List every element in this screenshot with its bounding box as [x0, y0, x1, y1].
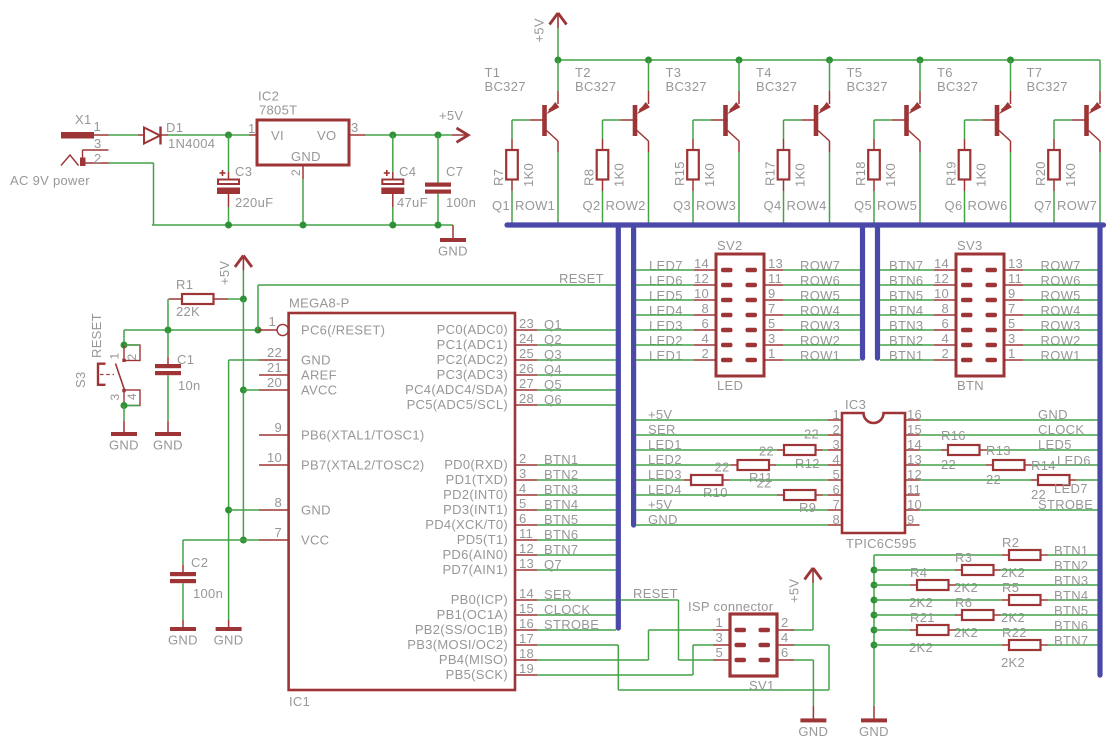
svg-text:7: 7: [274, 525, 282, 540]
wire X1 pin1 to D1: [109, 134, 139, 136]
wire BTN5 to bus: [537, 524, 616, 526]
IC1 pin 8 GND: [259, 509, 289, 511]
wire BTN3 to bus: [537, 494, 616, 496]
svg-text:9: 9: [274, 420, 282, 435]
svg-text:BTN3: BTN3: [544, 482, 578, 497]
IC3 pin 14 stub: [905, 449, 920, 451]
svg-text:23: 23: [519, 316, 534, 331]
IC1 pin 1 /RESET with bubble: [258, 329, 277, 331]
wire Q7 to bus: [1053, 191, 1055, 223]
svg-text:VI: VI: [271, 128, 284, 143]
IC3 pin 7 stub: [828, 509, 842, 511]
svg-text:10: 10: [694, 286, 709, 301]
svg-text:1: 1: [715, 615, 723, 630]
resistor R16 22 (LED5): [920, 449, 942, 451]
supply +5V flag (right arrow): [452, 134, 468, 136]
node rail junction T3: [736, 57, 743, 64]
svg-text:13: 13: [768, 256, 783, 271]
svg-text:Q5: Q5: [544, 377, 562, 392]
svg-text:R21: R21: [910, 610, 935, 625]
svg-text:GND: GND: [798, 724, 828, 739]
svg-text:PB5(SCK): PB5(SCK): [446, 667, 508, 682]
capacitor C1 10n: [167, 330, 169, 357]
svg-text:100n: 100n: [446, 195, 476, 210]
SV3 pin 14 net BTN7: [934, 269, 956, 271]
svg-text:22: 22: [267, 345, 282, 360]
svg-text:STROBE: STROBE: [544, 617, 599, 632]
svg-text:1K0: 1K0: [883, 163, 898, 187]
wire CLOCK to bus: [537, 614, 616, 616]
ground GND (IC1): [216, 627, 242, 631]
svg-text:C3: C3: [235, 164, 252, 179]
svg-text:STROBE: STROBE: [1038, 497, 1093, 512]
svg-text:2: 2: [701, 346, 709, 361]
svg-text:1: 1: [248, 121, 256, 136]
SV3 pin 5 net ROW3: [1004, 329, 1023, 331]
IC1 pin 7 VCC: [259, 539, 289, 541]
ground GND (C2): [170, 627, 196, 631]
svg-text:Q4: Q4: [544, 362, 562, 377]
transistor T4 BC327: [829, 60, 831, 91]
wire AVCC: [243, 389, 259, 391]
svg-text:SER: SER: [544, 587, 572, 602]
svg-text:R2: R2: [1002, 535, 1019, 550]
svg-text:2: 2: [94, 151, 102, 166]
wire T3 base: [693, 119, 711, 121]
resistor R13 22 (LED6): [920, 464, 987, 466]
IC1 pin 4 net BTN3: [515, 494, 537, 496]
SV2 pin 5 net ROW3: [764, 329, 783, 331]
node rail junctions: [225, 222, 232, 229]
connector SV2 box: [716, 254, 764, 376]
SV3 pin 3 net ROW2: [1004, 344, 1023, 346]
svg-text:21: 21: [267, 360, 282, 375]
svg-text:PB4(MISO): PB4(MISO): [439, 652, 508, 667]
resistor R21 2K2 (BTN6): [874, 629, 910, 631]
svg-text:LED6: LED6: [1057, 453, 1091, 468]
svg-text:3: 3: [832, 437, 840, 452]
svg-text:CLOCK: CLOCK: [1038, 422, 1084, 437]
IC3 pin 4 stub: [828, 464, 842, 466]
resistor R7 1K0: [511, 139, 513, 150]
IC1 pin 25 net Q3: [515, 359, 537, 361]
IC1 pin 14 net SER: [515, 599, 537, 601]
svg-text:2: 2: [781, 615, 789, 630]
resistor R1 22K: [182, 294, 214, 304]
svg-text:ROW4: ROW4: [787, 198, 827, 213]
svg-text:GND: GND: [214, 633, 244, 648]
svg-text:Q6: Q6: [544, 392, 562, 407]
svg-text:ROW1: ROW1: [515, 198, 555, 213]
svg-text:BTN4: BTN4: [1054, 588, 1088, 603]
svg-text:10: 10: [267, 450, 282, 465]
transistor T7 BC327: [1099, 60, 1101, 91]
svg-text:PD7(AIN1): PD7(AIN1): [442, 562, 508, 577]
svg-text:S3: S3: [73, 371, 88, 388]
wire BTN4 to bus: [537, 509, 616, 511]
IC3 pin 8 stub: [828, 524, 842, 526]
svg-text:5: 5: [768, 316, 776, 331]
svg-text:7: 7: [768, 301, 776, 316]
resistor R2 2K2 (BTN1): [874, 554, 1002, 556]
transistor T6 BC327: [1010, 60, 1012, 91]
IC3 pin 12 stub: [905, 479, 920, 481]
IC1 pin 26 net Q4: [515, 374, 537, 376]
svg-text:2K2: 2K2: [1001, 565, 1025, 580]
svg-text:AVCC: AVCC: [301, 383, 337, 398]
node VCC junction: [240, 537, 247, 544]
svg-text:R20: R20: [1033, 161, 1048, 186]
svg-text:1K0: 1K0: [702, 163, 717, 187]
SV2 pin 2 net LED1: [694, 359, 716, 361]
svg-text:LED7: LED7: [1054, 481, 1088, 496]
svg-text:ROW3: ROW3: [696, 198, 736, 213]
svg-text:R12: R12: [795, 456, 820, 471]
bus vertical C (SV2 right): [860, 225, 865, 358]
IC1 pin 15 net CLOCK: [515, 614, 537, 616]
IC1 pin 24 net Q2: [515, 344, 537, 346]
wire T4 collector to bus: [829, 152, 831, 223]
wire T6 base: [965, 119, 983, 121]
svg-text:3: 3: [1008, 331, 1016, 346]
wire GND pin22 down: [229, 359, 259, 361]
svg-text:BTN7: BTN7: [1054, 633, 1088, 648]
wire X1 pin2 to rail: [109, 162, 154, 164]
svg-text:7: 7: [832, 497, 840, 512]
SV2 pin 4 net LED2: [694, 344, 716, 346]
svg-text:PB0(ICP): PB0(ICP): [451, 592, 508, 607]
wire T7 base: [1054, 119, 1072, 121]
svg-text:R15: R15: [672, 161, 687, 186]
SV3 pin 9 net ROW5: [1004, 299, 1023, 301]
wire Q4 to bus: [783, 191, 785, 223]
resistor R11 22 (LED2): [636, 464, 731, 466]
svg-text:VCC: VCC: [301, 533, 329, 548]
resistor R14 22 (LED7): [920, 479, 1032, 481]
wire IC3 pin10 STROBE: [920, 509, 1098, 511]
svg-text:220uF: 220uF: [235, 195, 273, 210]
svg-text:SV1: SV1: [749, 678, 774, 693]
svg-text:26: 26: [519, 361, 534, 376]
diode D1 1N4004: [144, 128, 160, 144]
X1 pin 1 stub: [94, 134, 109, 136]
svg-text:T2: T2: [575, 65, 591, 80]
IC3 pin 3 stub: [828, 449, 842, 451]
svg-text:GND: GND: [153, 438, 183, 453]
node C7 top junction: [435, 132, 442, 139]
svg-text:C2: C2: [191, 555, 208, 570]
capacitor C4 47uF: [392, 135, 394, 172]
svg-text:T3: T3: [666, 65, 682, 80]
svg-text:AREF: AREF: [301, 368, 337, 383]
SV3 pin 10 net BTN5: [934, 299, 956, 301]
svg-text:Q2: Q2: [544, 332, 562, 347]
SV3 pin 12 net BTN6: [934, 284, 956, 286]
svg-text:GND: GND: [438, 244, 468, 259]
wire IC3 pin15 CLOCK: [920, 434, 1098, 436]
SV2 pin 11 net ROW6: [764, 284, 783, 286]
SV3 pin 7 net ROW4: [1004, 314, 1023, 316]
wire S3 to ground: [123, 406, 125, 422]
IC2 pin 2 stub: [302, 165, 304, 179]
node BTN4 junction: [871, 597, 878, 604]
svg-text:RESET: RESET: [559, 271, 604, 286]
svg-text:T4: T4: [756, 65, 772, 80]
svg-text:+5V: +5V: [787, 579, 802, 603]
wire RESET to upper run: [257, 285, 259, 330]
wire Q3 to bus: [537, 359, 616, 361]
svg-text:3: 3: [519, 466, 527, 481]
resistor R8 1K0: [602, 139, 604, 150]
ground GND (C1): [155, 432, 181, 436]
wire Q3 to bus: [692, 191, 694, 223]
node rail junction T4: [826, 57, 833, 64]
resistor R20 1K0: [1053, 139, 1055, 150]
wire Q6 to bus: [537, 404, 616, 406]
IC1 pin 13 net Q7: [515, 569, 537, 571]
resistor R15 1K0: [692, 139, 694, 150]
svg-text:BTN1: BTN1: [544, 452, 578, 467]
ground GND (SV1): [800, 718, 826, 722]
bus horizontal main: [507, 222, 1104, 227]
wire Q4 to bus: [537, 374, 616, 376]
wire pin8 GND: [229, 509, 259, 511]
SV3 pin 4 net BTN2: [934, 344, 956, 346]
svg-text:2K2: 2K2: [909, 640, 933, 655]
svg-text:11: 11: [907, 482, 921, 497]
svg-text:22K: 22K: [176, 304, 200, 319]
svg-text:2: 2: [832, 422, 840, 437]
IC3 pin 9 stub: [905, 524, 920, 526]
svg-text:1: 1: [108, 353, 122, 360]
wires SV2 left to bus B: [636, 269, 694, 271]
svg-text:PC1(ADC1): PC1(ADC1): [437, 337, 508, 352]
transistor T1 BC327: [557, 60, 559, 91]
node rail start junction: [555, 57, 562, 64]
svg-text:GND: GND: [291, 149, 321, 164]
svg-text:IC1: IC1: [289, 694, 310, 709]
wire T5 collector to bus: [919, 152, 921, 223]
svg-text:AC 9V power: AC 9V power: [10, 173, 90, 188]
svg-text:R5: R5: [1002, 580, 1019, 595]
svg-text:15: 15: [519, 601, 534, 616]
SV2 pin 1 net ROW1: [764, 359, 783, 361]
wire SV1 pin2 to +5V: [794, 629, 813, 631]
svg-text:TPIC6C595: TPIC6C595: [846, 536, 917, 551]
wire T1 collector to bus: [557, 152, 559, 223]
wires SV2 right to bus C: [783, 269, 860, 271]
wire IC3 pin7 +5V: [636, 509, 828, 511]
svg-text:X1: X1: [75, 112, 92, 127]
node BTN5 junction: [871, 612, 878, 619]
svg-text:9: 9: [768, 286, 776, 301]
SV2 pin 6 net LED3: [694, 329, 716, 331]
wire IC3 pin1 +5V: [636, 419, 828, 421]
svg-text:PB7(XTAL2/TOSC2): PB7(XTAL2/TOSC2): [301, 458, 425, 473]
IC3 pin 15 stub: [905, 434, 920, 436]
svg-text:Q3: Q3: [544, 347, 562, 362]
ground GND (S3): [111, 432, 137, 436]
node BTN6 junction: [871, 627, 878, 634]
svg-text:2K2: 2K2: [954, 580, 978, 595]
svg-text:12: 12: [934, 271, 949, 286]
wire BTN6 to bus: [537, 539, 616, 541]
svg-text:20: 20: [267, 375, 282, 390]
wire T3 collector to bus: [738, 152, 740, 223]
svg-text:13: 13: [1008, 256, 1023, 271]
SV3 pin 1 net ROW1: [1004, 359, 1023, 361]
svg-text:BTN4: BTN4: [544, 497, 578, 512]
IC1 pin 3 net BTN2: [515, 479, 537, 481]
svg-text:1: 1: [94, 119, 102, 134]
svg-text:4: 4: [832, 452, 840, 467]
resistor R17 1K0: [783, 139, 785, 150]
svg-text:GND: GND: [1038, 407, 1068, 422]
svg-text:PC6(/RESET): PC6(/RESET): [301, 323, 385, 338]
svg-text:PB2(SS/OC1B): PB2(SS/OC1B): [415, 622, 508, 637]
svg-text:2: 2: [941, 346, 949, 361]
svg-text:ROW2: ROW2: [606, 198, 646, 213]
svg-text:1K0: 1K0: [521, 163, 536, 187]
svg-text:22: 22: [715, 460, 730, 475]
svg-text:LED5: LED5: [1038, 437, 1072, 452]
IC1 pin 5 net BTN4: [515, 509, 537, 511]
svg-text:BC327: BC327: [756, 79, 797, 94]
IC2 pin 3 stub: [349, 134, 365, 136]
svg-text:13: 13: [519, 556, 534, 571]
wire SV1 pin6 to ground: [794, 659, 813, 661]
svg-text:T6: T6: [937, 65, 953, 80]
node pin8 GND junction: [225, 507, 232, 514]
shift register IC3 TPIC6C595: [842, 413, 905, 533]
svg-text:17: 17: [519, 631, 534, 646]
IC3 pin 6 stub: [828, 494, 842, 496]
svg-text:GND: GND: [168, 633, 198, 648]
svg-text:ROW6: ROW6: [968, 198, 1008, 213]
svg-text:VO: VO: [317, 128, 336, 143]
capacitor C2 100n: [182, 540, 184, 565]
svg-text:4: 4: [125, 393, 139, 400]
svg-text:BTN2: BTN2: [1054, 558, 1088, 573]
SV3 pin 13 net ROW7: [1004, 269, 1023, 271]
svg-text:Q1: Q1: [544, 317, 562, 332]
svg-text:14: 14: [934, 256, 949, 271]
svg-text:R7: R7: [491, 169, 506, 186]
SV2 pin 9 net ROW5: [764, 299, 783, 301]
svg-text:4: 4: [519, 481, 527, 496]
svg-text:PC4(ADC4/SDA): PC4(ADC4/SDA): [405, 382, 508, 397]
svg-text:GND: GND: [301, 353, 331, 368]
svg-text:Q6: Q6: [945, 198, 963, 213]
wire BTN7 to bus: [537, 554, 616, 556]
SV2 pin 8 net LED4: [694, 314, 716, 316]
svg-text:BC327: BC327: [575, 79, 616, 94]
svg-text:C7: C7: [446, 164, 463, 179]
bus vertical D (SV3 left): [875, 225, 880, 358]
svg-text:PC5(ADC5/SCL): PC5(ADC5/SCL): [407, 397, 508, 412]
svg-text:5: 5: [715, 645, 723, 660]
svg-text:+5V: +5V: [439, 108, 463, 123]
voltage regulator IC2 7805T: [257, 120, 349, 165]
svg-text:ROW5: ROW5: [877, 198, 917, 213]
svg-text:BC327: BC327: [937, 79, 978, 94]
svg-text:R14: R14: [1031, 458, 1056, 473]
svg-text:R9: R9: [799, 500, 816, 515]
wire RESET net (to bus): [258, 284, 616, 286]
svg-text:R13: R13: [986, 443, 1011, 458]
IC1 pin 18 MISO wire to SV1 pin1: [515, 659, 537, 661]
svg-text:10: 10: [934, 286, 949, 301]
connector X1 power jack: [61, 132, 94, 139]
SV1 pin stubs: [713, 629, 730, 631]
svg-text:GND: GND: [109, 438, 139, 453]
wire D1 to IC2 VI: [168, 134, 249, 136]
svg-text:19: 19: [519, 661, 534, 676]
svg-text:PC0(ADC0): PC0(ADC0): [437, 322, 508, 337]
connector SV1 ISP: [730, 614, 777, 676]
IC3 pin 13 stub: [905, 464, 920, 466]
svg-text:R18: R18: [853, 161, 868, 186]
svg-text:25: 25: [519, 346, 534, 361]
svg-text:1: 1: [268, 314, 276, 329]
svg-text:Q2: Q2: [583, 198, 601, 213]
svg-text:8: 8: [941, 301, 949, 316]
svg-text:SV2: SV2: [717, 238, 742, 253]
supply +5V (SV1): [805, 568, 814, 580]
svg-text:PD0(RXD): PD0(RXD): [444, 457, 508, 472]
svg-text:2K2: 2K2: [1001, 655, 1025, 670]
microcontroller IC1 MEGA8-P: [289, 313, 515, 690]
wire Q1 to bus: [537, 329, 616, 331]
svg-text:BTN2: BTN2: [544, 467, 578, 482]
svg-text:R3: R3: [955, 550, 972, 565]
svg-text:5: 5: [832, 467, 840, 482]
svg-text:3: 3: [715, 630, 723, 645]
node RESET branch junction: [255, 327, 262, 334]
bus vertical A (IC1 side): [616, 225, 621, 628]
svg-text:2K2: 2K2: [954, 625, 978, 640]
resistor R22 2K2 (BTN7): [874, 644, 1002, 646]
wire Q5 to bus: [537, 389, 616, 391]
bus vertical B (LED side): [631, 225, 636, 525]
capacitor C7 100n: [437, 135, 439, 183]
svg-text:R8: R8: [582, 169, 597, 186]
svg-text:IC2: IC2: [258, 89, 279, 104]
svg-text:22: 22: [757, 476, 772, 491]
svg-text:2: 2: [289, 169, 303, 176]
svg-text:BC327: BC327: [666, 79, 707, 94]
svg-text:6: 6: [701, 316, 709, 331]
wire T5 base: [874, 119, 892, 121]
resistor R18 1K0: [873, 139, 875, 150]
ground GND (BTN resistors): [873, 706, 875, 719]
svg-text:GND: GND: [859, 724, 889, 739]
svg-text:PD4(XCK/T0): PD4(XCK/T0): [425, 517, 508, 532]
transistor T5 BC327: [919, 60, 921, 91]
svg-text:6: 6: [781, 645, 789, 660]
svg-text:22: 22: [804, 427, 819, 442]
resistor R5 2K2 (BTN4): [874, 599, 1002, 601]
svg-text:PB1(OC1A): PB1(OC1A): [437, 607, 508, 622]
IC3 pin 11 stub: [905, 494, 920, 496]
svg-text:Q3: Q3: [673, 198, 691, 213]
IC3 pin 10 stub: [905, 509, 920, 511]
node rail junction T6: [1007, 57, 1014, 64]
node C1 junction: [165, 327, 172, 334]
svg-text:12: 12: [519, 541, 534, 556]
wire RESET row: [124, 329, 262, 331]
resistor R6 2K2 (BTN5): [874, 614, 955, 616]
